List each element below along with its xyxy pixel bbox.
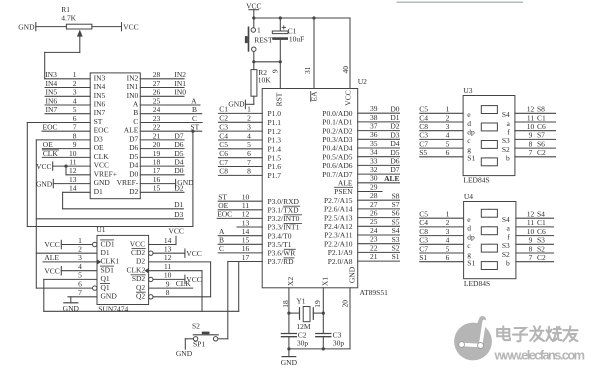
svg-text:C3: C3 xyxy=(219,122,228,131)
svg-text:EOC: EOC xyxy=(43,123,58,132)
svg-text:ALE: ALE xyxy=(44,253,59,262)
svg-text:P0.1/AD1: P0.1/AD1 xyxy=(322,118,352,127)
svg-text:6: 6 xyxy=(78,279,82,288)
svg-text:24: 24 xyxy=(370,226,378,235)
svg-text:B: B xyxy=(133,108,138,117)
svg-text:P3.3/INT1: P3.3/INT1 xyxy=(268,223,300,232)
svg-text:1: 1 xyxy=(78,236,82,245)
svg-text:S3: S3 xyxy=(502,136,510,145)
svg-text:28: 28 xyxy=(153,70,161,79)
svg-text:1: 1 xyxy=(73,70,77,79)
svg-text:D7: D7 xyxy=(390,165,399,174)
svg-text:B: B xyxy=(192,105,197,114)
svg-text:P1.6: P1.6 xyxy=(268,162,282,171)
svg-text:17: 17 xyxy=(242,253,250,262)
svg-text:2: 2 xyxy=(78,245,82,254)
svg-text:4.7K: 4.7K xyxy=(61,14,76,23)
svg-text:REST: REST xyxy=(254,35,273,44)
svg-text:ALE: ALE xyxy=(384,174,399,183)
svg-text:IN2: IN2 xyxy=(174,70,186,79)
svg-text:25: 25 xyxy=(153,96,161,105)
svg-text:11: 11 xyxy=(527,113,534,122)
svg-text:9: 9 xyxy=(271,69,280,73)
svg-text:SD1: SD1 xyxy=(101,266,115,275)
svg-text:3: 3 xyxy=(78,253,82,262)
svg-text:OE: OE xyxy=(94,143,104,152)
svg-text:P2.6/A14: P2.6/A14 xyxy=(324,205,353,214)
svg-text:P1.5: P1.5 xyxy=(268,153,282,162)
svg-text:6: 6 xyxy=(446,253,450,262)
svg-text:P3.7/RD: P3.7/RD xyxy=(268,257,295,266)
svg-text:C5: C5 xyxy=(419,210,428,219)
svg-text:S5: S5 xyxy=(392,217,400,226)
svg-text:S4: S4 xyxy=(537,210,545,219)
svg-text:D1: D1 xyxy=(390,113,399,122)
svg-text:IN0: IN0 xyxy=(127,91,139,100)
svg-text:PSEN: PSEN xyxy=(334,187,353,196)
svg-text:S3: S3 xyxy=(392,235,400,244)
svg-text:P2.7/A15: P2.7/A15 xyxy=(324,196,353,205)
svg-text:D4: D4 xyxy=(174,158,183,167)
svg-text:GND: GND xyxy=(63,304,80,313)
svg-text:27: 27 xyxy=(153,79,161,88)
svg-text:D4: D4 xyxy=(129,161,138,170)
svg-text:g: g xyxy=(467,250,471,259)
svg-text:SD2: SD2 xyxy=(132,274,146,283)
svg-text:C7: C7 xyxy=(419,244,428,253)
svg-text:D1: D1 xyxy=(101,248,110,257)
svg-text:VCC: VCC xyxy=(44,266,59,275)
svg-text:D1: D1 xyxy=(94,187,103,196)
svg-text:GND: GND xyxy=(347,266,356,283)
svg-text:1: 1 xyxy=(257,25,261,34)
svg-text:SUN7474: SUN7474 xyxy=(98,305,128,314)
svg-text:18: 18 xyxy=(281,300,290,308)
svg-text:ST: ST xyxy=(190,123,199,132)
svg-text:8: 8 xyxy=(529,244,533,253)
svg-text:R1: R1 xyxy=(61,5,70,14)
svg-text:2: 2 xyxy=(247,114,251,123)
svg-text:P2.1/A9: P2.1/A9 xyxy=(328,248,353,257)
svg-text:S5: S5 xyxy=(419,148,427,157)
svg-text:P2.2/A10: P2.2/A10 xyxy=(324,239,353,248)
svg-text:d: d xyxy=(467,119,471,128)
svg-text:7: 7 xyxy=(529,148,533,157)
svg-text:GND: GND xyxy=(176,349,193,358)
svg-text:10uF: 10uF xyxy=(289,35,304,44)
svg-text:GND: GND xyxy=(101,292,118,301)
svg-text:11: 11 xyxy=(527,218,534,227)
svg-text:8: 8 xyxy=(166,288,170,297)
svg-text:EOC: EOC xyxy=(217,210,232,219)
svg-text:C4: C4 xyxy=(219,131,228,140)
svg-text:C3: C3 xyxy=(419,131,428,140)
svg-text:29: 29 xyxy=(370,182,378,191)
svg-text:10: 10 xyxy=(527,122,535,131)
svg-text:S2: S2 xyxy=(192,322,200,331)
svg-text:C8: C8 xyxy=(419,122,428,131)
svg-text:D0: D0 xyxy=(129,169,138,178)
svg-text:ALE: ALE xyxy=(338,179,353,188)
svg-text:5: 5 xyxy=(78,271,82,280)
svg-text:VCC: VCC xyxy=(44,240,59,249)
svg-text:35: 35 xyxy=(370,139,378,148)
svg-text:S6: S6 xyxy=(537,139,545,148)
svg-text:30p: 30p xyxy=(333,338,345,347)
svg-text:U1: U1 xyxy=(96,225,105,234)
svg-text:P1.1: P1.1 xyxy=(268,118,282,127)
svg-text:13: 13 xyxy=(164,245,172,254)
svg-text:P0.7/AD7: P0.7/AD7 xyxy=(322,170,352,179)
svg-text:3: 3 xyxy=(247,122,251,131)
svg-text:7: 7 xyxy=(247,158,251,167)
svg-text:P1.0: P1.0 xyxy=(268,109,282,118)
svg-text:34: 34 xyxy=(370,148,378,157)
svg-text:S3: S3 xyxy=(502,241,510,250)
svg-text:GND: GND xyxy=(18,23,35,32)
svg-text:RST: RST xyxy=(275,92,284,106)
svg-text:VCC: VCC xyxy=(186,249,201,258)
svg-text:S1: S1 xyxy=(467,154,475,163)
svg-text:6: 6 xyxy=(446,148,450,157)
svg-text:5: 5 xyxy=(247,140,251,149)
svg-text:GND: GND xyxy=(94,178,111,187)
svg-text:7: 7 xyxy=(78,288,82,297)
svg-text:CLK: CLK xyxy=(94,152,110,161)
svg-text:S1: S1 xyxy=(392,252,400,261)
svg-text:2: 2 xyxy=(446,113,450,122)
svg-text:16: 16 xyxy=(153,175,161,184)
svg-text:C4: C4 xyxy=(419,113,428,122)
svg-text:d: d xyxy=(467,224,471,233)
svg-text:28: 28 xyxy=(370,191,378,200)
svg-text:P0.3/AD3: P0.3/AD3 xyxy=(322,135,352,144)
svg-text:7: 7 xyxy=(529,253,533,262)
svg-text:C6: C6 xyxy=(537,122,546,131)
svg-text:5: 5 xyxy=(446,244,450,253)
svg-text:S8: S8 xyxy=(392,191,400,200)
svg-text:IN1: IN1 xyxy=(174,79,186,88)
svg-text:S8: S8 xyxy=(537,105,545,114)
svg-text:P1.4: P1.4 xyxy=(268,145,282,154)
svg-text:12: 12 xyxy=(69,166,77,175)
svg-text:D0: D0 xyxy=(390,104,399,113)
svg-text:C7: C7 xyxy=(219,158,228,167)
svg-text:10: 10 xyxy=(69,149,77,158)
svg-text:7: 7 xyxy=(73,123,77,132)
svg-text:14: 14 xyxy=(164,236,172,245)
svg-text:IN6: IN6 xyxy=(46,96,58,105)
svg-text:b: b xyxy=(506,154,510,163)
svg-text:D3: D3 xyxy=(94,134,103,143)
svg-text:Y1: Y1 xyxy=(296,297,305,306)
svg-text:9: 9 xyxy=(529,236,533,245)
svg-text:D1: D1 xyxy=(174,200,183,209)
svg-text:9: 9 xyxy=(166,279,170,288)
svg-text:20: 20 xyxy=(340,300,349,308)
svg-text:10: 10 xyxy=(527,227,535,236)
svg-text:4: 4 xyxy=(446,131,450,140)
svg-text:Q2: Q2 xyxy=(136,283,145,292)
svg-text:C3: C3 xyxy=(419,236,428,245)
svg-text:S4: S4 xyxy=(502,110,510,119)
svg-text:VCC: VCC xyxy=(94,161,109,170)
svg-text:IN3: IN3 xyxy=(94,73,106,82)
svg-text:D0: D0 xyxy=(174,166,183,175)
svg-text:C1: C1 xyxy=(219,105,228,114)
svg-text:C4: C4 xyxy=(419,218,428,227)
svg-text:21: 21 xyxy=(153,131,161,140)
svg-text:dp: dp xyxy=(467,232,475,241)
svg-text:A: A xyxy=(191,96,197,105)
svg-text:5: 5 xyxy=(73,105,77,114)
svg-text:4: 4 xyxy=(73,96,77,105)
svg-text:C2: C2 xyxy=(219,114,228,123)
svg-text:A: A xyxy=(133,100,139,109)
svg-text:P2.4/A12: P2.4/A12 xyxy=(324,222,353,231)
svg-text:CD1: CD1 xyxy=(101,239,115,248)
svg-text:5: 5 xyxy=(446,139,450,148)
svg-text:26: 26 xyxy=(153,88,161,97)
svg-text:P2.3/A11: P2.3/A11 xyxy=(324,231,353,240)
svg-text:C8: C8 xyxy=(219,167,228,176)
svg-text:VCC: VCC xyxy=(123,23,138,32)
svg-text:VCC: VCC xyxy=(168,226,183,235)
svg-text:U3: U3 xyxy=(463,86,472,95)
svg-text:D2: D2 xyxy=(129,187,138,196)
svg-text:SP1: SP1 xyxy=(193,339,205,348)
svg-text:www.elecfans.com: www.elecfans.com xyxy=(494,348,586,363)
svg-text:IN4: IN4 xyxy=(46,79,58,88)
svg-text:3: 3 xyxy=(73,88,77,97)
svg-text:Q1: Q1 xyxy=(101,274,110,283)
svg-text:VCC: VCC xyxy=(246,1,261,10)
svg-text:P1.2: P1.2 xyxy=(268,127,282,136)
svg-text:D6: D6 xyxy=(390,157,399,166)
svg-text:D7: D7 xyxy=(129,134,138,143)
svg-text:37: 37 xyxy=(370,122,378,131)
svg-text:IN0: IN0 xyxy=(174,88,186,97)
svg-text:23: 23 xyxy=(153,114,161,123)
svg-text:13: 13 xyxy=(242,218,250,227)
svg-text:4: 4 xyxy=(78,262,82,271)
svg-text:21: 21 xyxy=(370,252,378,261)
svg-text:20: 20 xyxy=(153,140,161,149)
svg-text:36: 36 xyxy=(370,130,378,139)
svg-text:b: b xyxy=(506,259,510,268)
svg-text:22: 22 xyxy=(153,123,161,132)
svg-text:C1: C1 xyxy=(537,218,546,227)
svg-text:D7: D7 xyxy=(174,131,183,140)
svg-text:S2: S2 xyxy=(537,244,545,253)
svg-text:P1.3: P1.3 xyxy=(268,136,282,145)
svg-text:EA: EA xyxy=(310,91,319,102)
svg-text:CLK: CLK xyxy=(43,149,59,158)
svg-text:2: 2 xyxy=(73,79,77,88)
svg-text:U2: U2 xyxy=(358,77,367,86)
svg-text:C8: C8 xyxy=(419,227,428,236)
svg-text:17: 17 xyxy=(153,166,161,175)
svg-text:C5: C5 xyxy=(419,105,428,114)
svg-text:15: 15 xyxy=(153,184,161,193)
svg-text:P2.5/A13: P2.5/A13 xyxy=(324,213,353,222)
svg-text:D4: D4 xyxy=(390,139,399,148)
svg-text:11: 11 xyxy=(69,158,76,167)
svg-text:12: 12 xyxy=(527,105,535,114)
svg-text:14: 14 xyxy=(69,184,77,193)
svg-text:S1: S1 xyxy=(467,259,475,268)
svg-text:23: 23 xyxy=(370,235,378,244)
svg-text:S2: S2 xyxy=(502,250,510,259)
svg-text:S2: S2 xyxy=(502,145,510,154)
svg-text:Q1: Q1 xyxy=(101,283,110,292)
svg-text:GND: GND xyxy=(281,358,298,367)
svg-text:GND: GND xyxy=(228,100,245,109)
svg-text:C7: C7 xyxy=(419,139,428,148)
svg-text:12: 12 xyxy=(527,210,535,219)
svg-text:VREF+: VREF+ xyxy=(94,169,117,178)
svg-text:30p: 30p xyxy=(297,338,309,347)
svg-text:D5: D5 xyxy=(129,152,138,161)
svg-text:D5: D5 xyxy=(390,148,399,157)
svg-text:g: g xyxy=(467,145,471,154)
svg-text:26: 26 xyxy=(370,209,378,218)
svg-text:Q2: Q2 xyxy=(136,292,145,301)
svg-text:31: 31 xyxy=(303,66,312,74)
svg-text:LED84S: LED84S xyxy=(463,176,489,185)
svg-text:IN7: IN7 xyxy=(94,108,106,117)
svg-text:IN3: IN3 xyxy=(45,70,57,79)
svg-text:32: 32 xyxy=(370,165,378,174)
svg-text:ST: ST xyxy=(94,117,103,126)
svg-text:40: 40 xyxy=(341,66,350,74)
svg-text:4: 4 xyxy=(446,236,450,245)
svg-text:IN5: IN5 xyxy=(94,91,106,100)
svg-text:IN7: IN7 xyxy=(46,105,58,114)
svg-text:P0.5/AD5: P0.5/AD5 xyxy=(322,152,352,161)
svg-text:GND: GND xyxy=(36,179,53,188)
svg-text:S4: S4 xyxy=(502,215,510,224)
svg-text:10: 10 xyxy=(164,271,172,280)
svg-text:EOC: EOC xyxy=(94,126,109,135)
svg-text:CLK1: CLK1 xyxy=(101,257,120,266)
svg-text:1: 1 xyxy=(247,105,251,114)
svg-text:CLK2: CLK2 xyxy=(126,266,145,275)
svg-text:9: 9 xyxy=(529,131,533,140)
svg-text:ALE: ALE xyxy=(124,126,139,135)
svg-text:VCC: VCC xyxy=(130,239,145,248)
svg-text:9: 9 xyxy=(73,140,77,149)
svg-text:S4: S4 xyxy=(392,226,400,235)
svg-text:C6: C6 xyxy=(537,227,546,236)
svg-text:IN1: IN1 xyxy=(127,82,139,91)
svg-text:C: C xyxy=(192,114,197,123)
svg-text:6: 6 xyxy=(73,114,77,123)
svg-text:IN6: IN6 xyxy=(94,100,106,109)
svg-text:S2: S2 xyxy=(392,244,400,253)
svg-text:D3: D3 xyxy=(390,130,399,139)
svg-text:19: 19 xyxy=(153,149,161,158)
svg-text:LED84S: LED84S xyxy=(464,279,490,288)
svg-text:8: 8 xyxy=(529,139,533,148)
svg-text:C1: C1 xyxy=(537,113,546,122)
svg-text:P0.0/AD0: P0.0/AD0 xyxy=(322,109,352,118)
svg-text:19: 19 xyxy=(313,300,322,308)
svg-text:GND: GND xyxy=(177,178,194,187)
svg-text:30: 30 xyxy=(370,174,378,183)
svg-text:24: 24 xyxy=(153,105,161,114)
svg-text:VCC: VCC xyxy=(344,90,353,105)
svg-text:VCC: VCC xyxy=(36,162,51,171)
svg-text:22: 22 xyxy=(370,243,378,252)
svg-text:13: 13 xyxy=(69,175,77,184)
svg-text:C: C xyxy=(133,117,138,126)
svg-text:4: 4 xyxy=(247,131,251,140)
svg-text:IN4: IN4 xyxy=(94,82,106,91)
svg-text:8: 8 xyxy=(247,167,251,176)
svg-text:1: 1 xyxy=(446,105,450,114)
svg-text:2: 2 xyxy=(446,218,450,227)
svg-text:10K: 10K xyxy=(258,76,272,85)
svg-text:D6: D6 xyxy=(129,143,138,152)
svg-text:33: 33 xyxy=(370,156,378,165)
svg-text:IN2: IN2 xyxy=(127,73,139,82)
svg-text:18: 18 xyxy=(153,158,161,167)
svg-text:3: 3 xyxy=(446,122,450,131)
svg-text:S6: S6 xyxy=(392,209,400,218)
svg-text:S3: S3 xyxy=(537,236,545,245)
svg-text:6: 6 xyxy=(247,149,251,158)
svg-text:IN5: IN5 xyxy=(46,88,58,97)
svg-text:C2: C2 xyxy=(537,148,546,157)
svg-text:OE: OE xyxy=(43,140,53,149)
svg-text:C: C xyxy=(219,244,224,253)
svg-text:C5: C5 xyxy=(219,140,228,149)
svg-text:S7: S7 xyxy=(392,200,400,209)
svg-text:25: 25 xyxy=(370,217,378,226)
svg-text:11: 11 xyxy=(164,262,171,271)
svg-text:P2.0/A8: P2.0/A8 xyxy=(328,257,353,266)
svg-text:X1: X1 xyxy=(321,277,330,286)
svg-text:VREF-: VREF- xyxy=(117,178,139,187)
svg-text:D2: D2 xyxy=(136,257,145,266)
svg-text:3: 3 xyxy=(446,227,450,236)
svg-text:P1.7: P1.7 xyxy=(268,171,282,180)
svg-text:CLK: CLK xyxy=(176,279,192,288)
svg-text:38: 38 xyxy=(370,113,378,122)
svg-text:D6: D6 xyxy=(174,140,183,149)
svg-text:C2: C2 xyxy=(537,253,546,262)
svg-text:X2: X2 xyxy=(286,277,295,286)
svg-text:C6: C6 xyxy=(219,149,228,158)
svg-text:CD2: CD2 xyxy=(131,248,145,257)
svg-text:1: 1 xyxy=(446,210,450,219)
svg-text:8: 8 xyxy=(73,131,77,140)
svg-text:D3: D3 xyxy=(174,210,183,219)
svg-text:D2: D2 xyxy=(390,122,399,131)
svg-text:dp: dp xyxy=(467,128,475,137)
svg-text:12: 12 xyxy=(164,253,172,262)
svg-text:P0.6/AD6: P0.6/AD6 xyxy=(322,161,352,170)
svg-text:U4: U4 xyxy=(464,192,473,201)
svg-text:D5: D5 xyxy=(174,149,183,158)
svg-text:S1: S1 xyxy=(419,253,427,262)
svg-text:27: 27 xyxy=(370,200,378,209)
svg-text:AT89S51: AT89S51 xyxy=(360,288,389,297)
svg-text:39: 39 xyxy=(370,104,378,113)
svg-text:P0.2/AD2: P0.2/AD2 xyxy=(322,126,352,135)
svg-text:P0.4/AD4: P0.4/AD4 xyxy=(322,144,352,153)
